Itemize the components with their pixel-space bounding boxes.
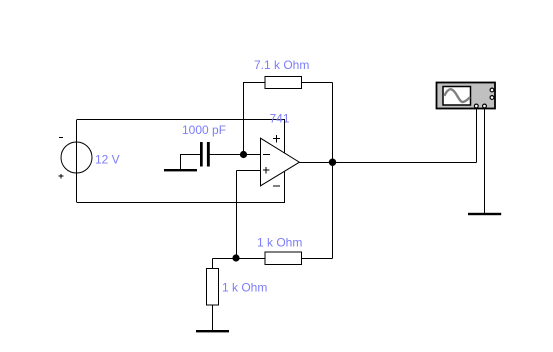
svg-text:1 k Ohm: 1 k Ohm: [222, 281, 267, 295]
svg-text:1000 pF: 1000 pF: [182, 123, 226, 137]
svg-text:1 k Ohm: 1 k Ohm: [257, 236, 302, 250]
svg-text:12 V: 12 V: [95, 153, 120, 167]
svg-text:7.1 k Ohm: 7.1 k Ohm: [254, 58, 309, 72]
svg-text:741: 741: [270, 112, 290, 126]
